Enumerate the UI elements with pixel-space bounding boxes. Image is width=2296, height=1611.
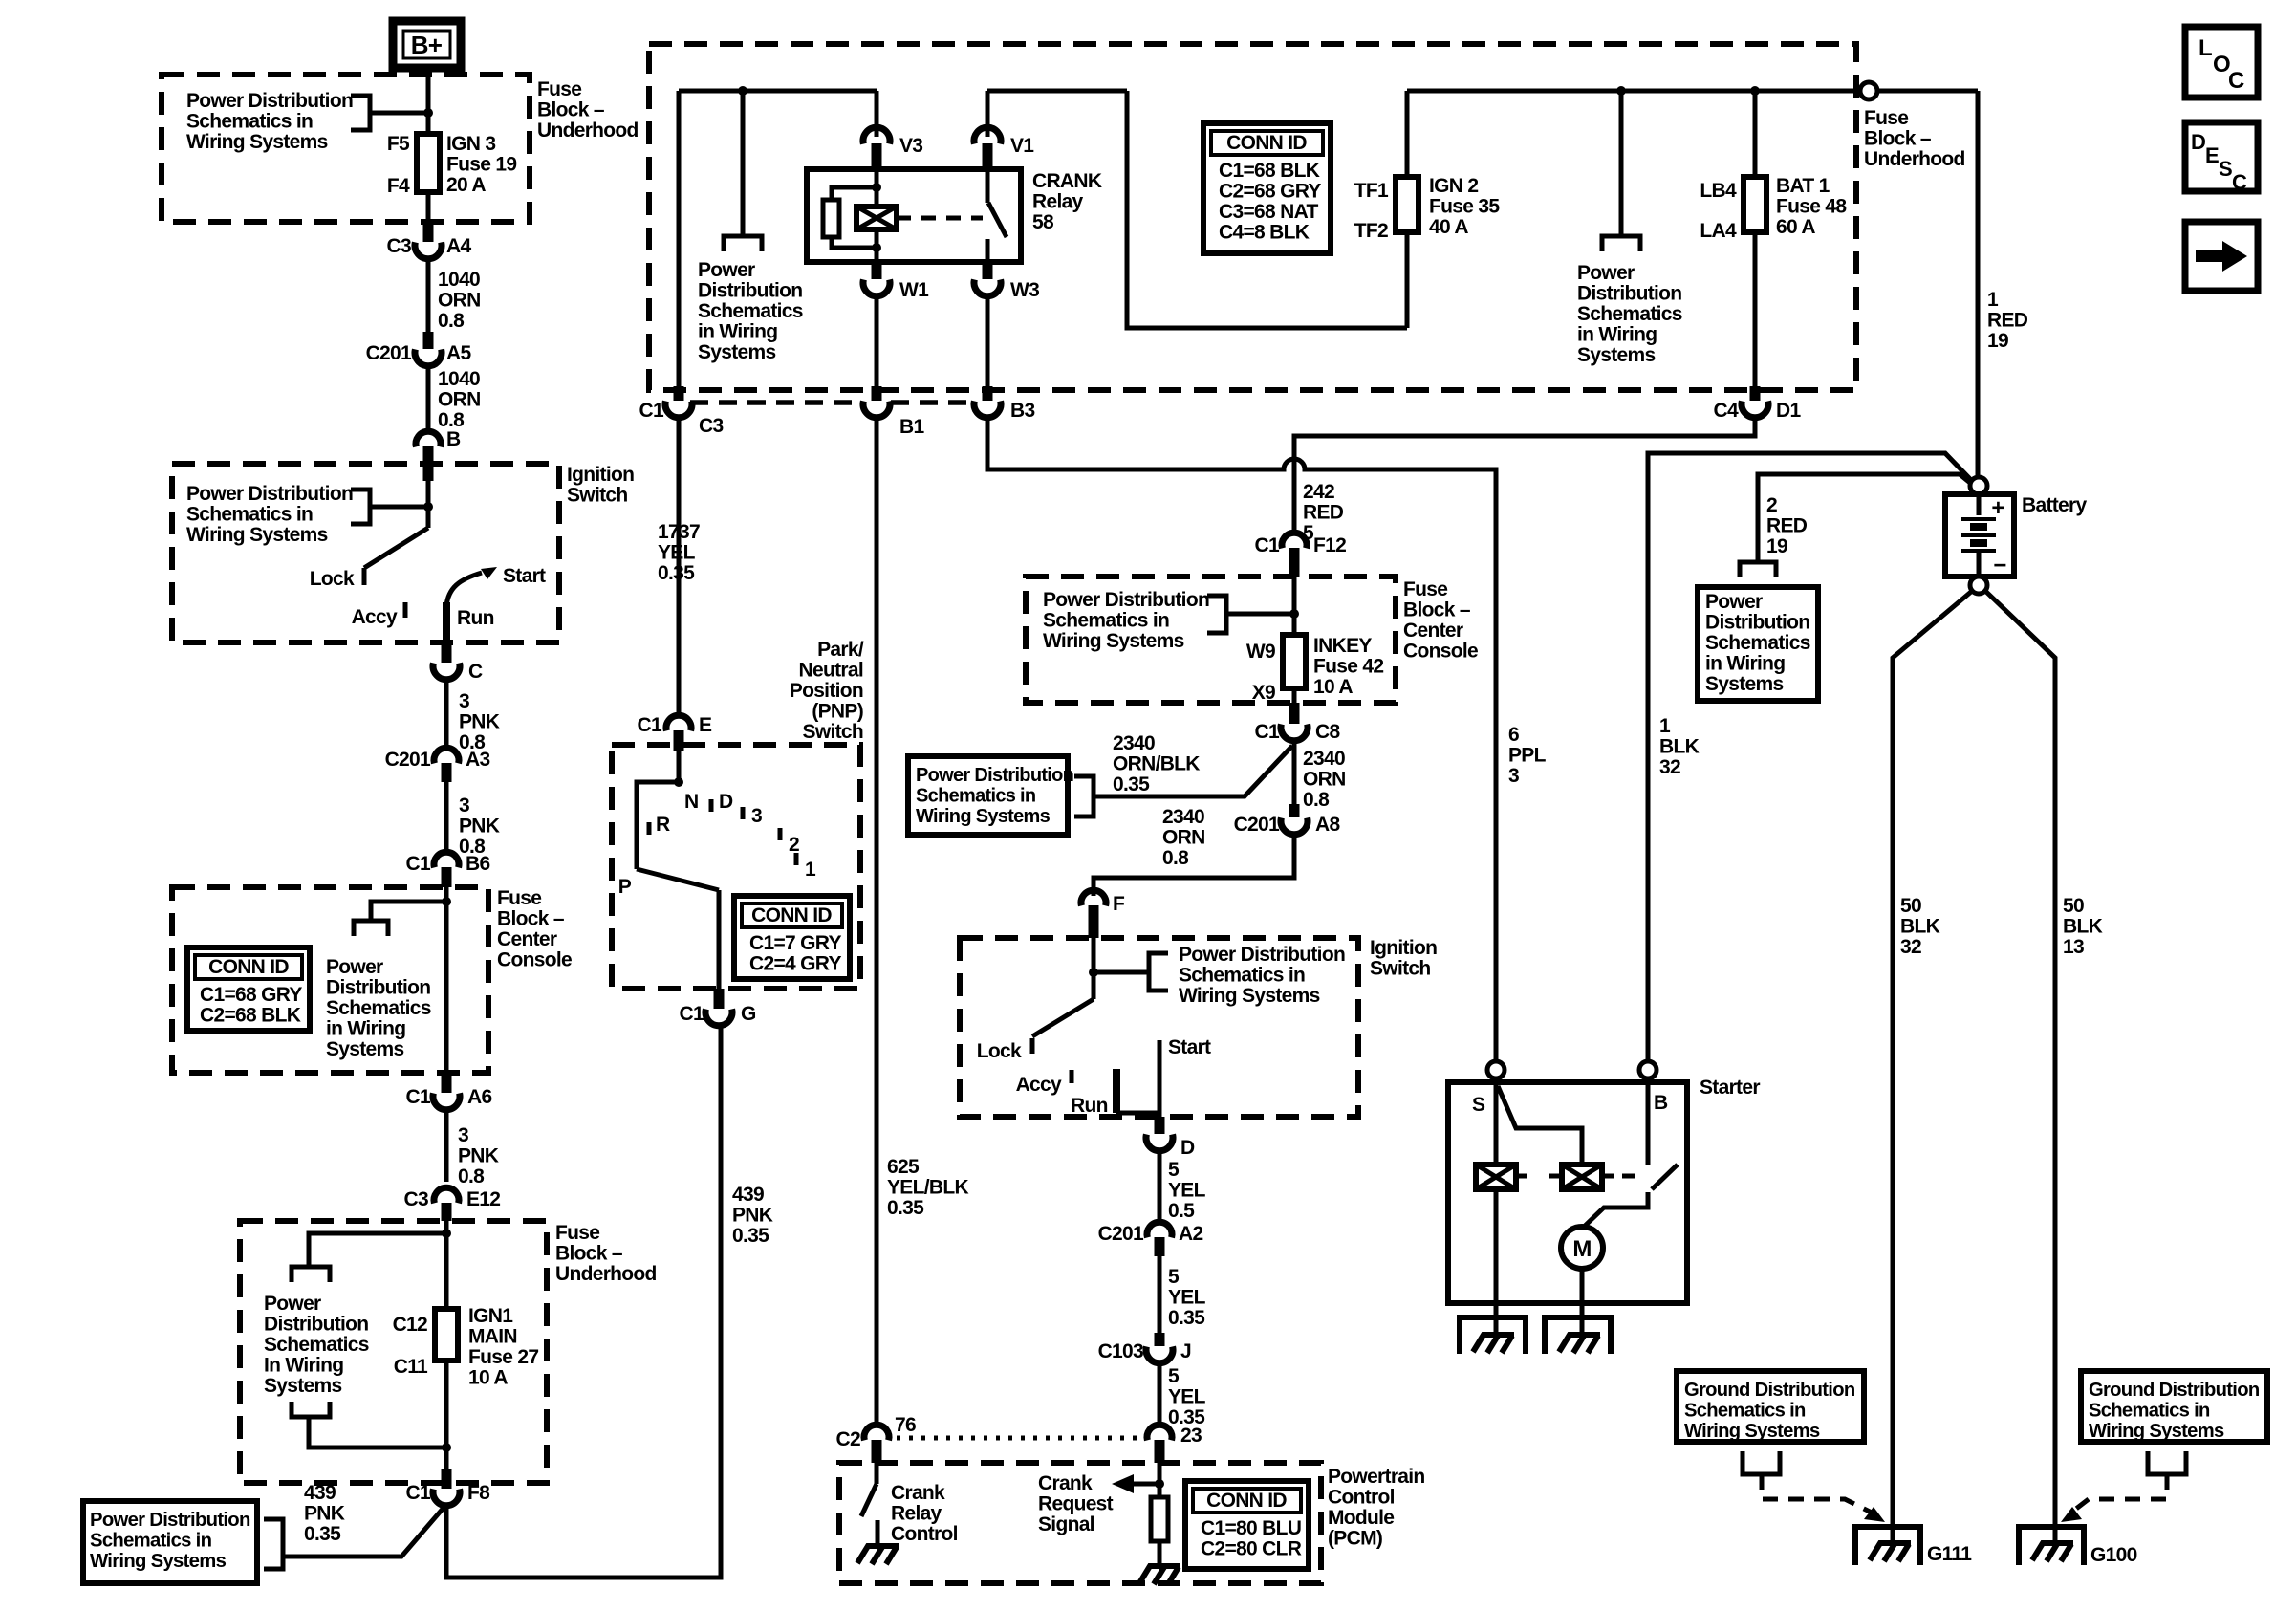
wire label 3 PNK 0.8 second [444,782,449,852]
svg-text:Systems: Systems [1705,673,1784,695]
svg-text:Systems: Systems [264,1375,342,1397]
wire D1 to F12 [1294,418,1755,533]
wire battery negative to G100 [1986,592,2055,1527]
svg-text:Block –: Block – [555,1243,623,1265]
bracket ground reference 1 [1743,1451,1780,1474]
svg-text:2340: 2340 [1113,732,1155,754]
svg-text:(PNP): (PNP) [812,701,863,723]
svg-text:YEL: YEL [1168,1287,1206,1309]
wire fuse to connector C3-A4 [426,192,431,223]
D contact [709,799,714,812]
svg-text:Distribution: Distribution [264,1314,368,1336]
svg-text:CONN ID: CONN ID [1206,1490,1287,1512]
svg-text:Wiring Systems: Wiring Systems [1043,630,1184,652]
starter B contact [1646,1082,1651,1165]
bracket reference INKEY [1207,596,1226,633]
svg-text:625: 625 [887,1156,920,1178]
ground distribution schematics box 1 [1677,1371,1864,1442]
svg-text:C1=68 BLK: C1=68 BLK [1219,160,1320,182]
svg-text:3: 3 [458,1124,468,1146]
svg-text:P: P [618,876,632,898]
svg-text:Block –: Block – [537,99,605,121]
svg-text:C2=68 BLK: C2=68 BLK [200,1005,301,1027]
svg-text:Accy: Accy [1016,1074,1062,1096]
wire battery positive to 2 RED reference [1758,474,1970,562]
svg-text:C1: C1 [406,1482,431,1504]
wire branch to reference bracket [370,505,428,510]
svg-text:LA4: LA4 [1700,220,1737,242]
ground distribution schematics box 2 [2081,1371,2267,1442]
Accy contact 2 [1070,1070,1074,1083]
wire F8 down and right to PNP output [446,1024,721,1578]
connector C1 E [677,418,682,715]
connector C1 A6 [442,1073,452,1093]
svg-text:Schematics: Schematics [326,997,431,1019]
svg-text:ORN: ORN [438,389,481,411]
node junction bus [738,86,747,96]
LOC button [2185,27,2258,98]
svg-text:PNK: PNK [732,1205,773,1227]
svg-text:Power Distribution: Power Distribution [1043,589,1209,611]
svg-text:58: 58 [1032,211,1054,233]
svg-text:−: − [1993,553,2006,578]
connector C1 C3 [674,386,684,401]
svg-text:IGN 3: IGN 3 [446,133,495,155]
wire label 3 PNK 0.8 third [444,1110,449,1182]
svg-text:Underhood: Underhood [537,120,639,142]
node junction B6 feed [442,897,451,906]
svg-text:RED: RED [1303,502,1344,524]
svg-text:Systems: Systems [326,1038,404,1060]
svg-text:20 A: 20 A [446,174,486,196]
bracket power distribution reference 2 [351,490,370,524]
svg-text:IGN 2: IGN 2 [1429,175,1478,197]
svg-text:G100: G100 [2090,1544,2137,1566]
bracket ground reference 2 [2148,1451,2186,1474]
relay switch contact [986,169,990,203]
fuse BAT1 Fuse 48 60A [1744,177,1766,232]
svg-text:B+: B+ [411,31,443,59]
wire W1 to B1 [875,296,879,390]
connector 23 PCM [1147,1425,1172,1440]
svg-text:5: 5 [1168,1365,1180,1387]
svg-text:Wiring Systems: Wiring Systems [916,806,1051,827]
starter coil side stubs [1516,1174,1527,1179]
svg-text:3: 3 [459,795,469,816]
svg-text:B1: B1 [899,416,924,438]
wire bus down to battery positive [1976,91,1981,475]
svg-text:439: 439 [304,1482,336,1504]
power distribution schematics box solid 2 [908,756,1068,835]
svg-text:50: 50 [1900,895,1921,917]
svg-text:Wiring Systems: Wiring Systems [186,131,328,153]
svg-text:B: B [1654,1092,1668,1114]
svg-text:in Wiring: in Wiring [326,1018,405,1040]
fuse block - underhood (left) dashed box [162,75,530,222]
connector B1 [872,386,882,401]
crank request arrow [1133,1482,1159,1487]
bracket reference center [724,236,762,251]
svg-text:242: 242 [1303,481,1334,503]
connector V3 [875,91,879,137]
svg-text:F12: F12 [1313,534,1346,556]
wire fuse IGN1 output [444,1361,449,1483]
relay dashed actuation link [897,216,983,221]
CONN ID table PCM [1185,1481,1309,1569]
wire into PNP switch [677,745,682,782]
bracket reference right [1602,236,1640,251]
svg-text:3: 3 [751,805,762,827]
bus wire right segment [1407,89,1978,94]
svg-text:YEL: YEL [1168,1386,1206,1408]
wire branch to power distribution reference [370,111,428,116]
wire into switch 2 [1092,938,1096,999]
dashed arrow to G111 [1762,1474,1872,1513]
svg-text:Power Distribution: Power Distribution [186,483,353,505]
svg-text:G: G [741,1003,756,1025]
svg-text:Systems: Systems [698,341,776,363]
svg-text:Position: Position [790,680,863,702]
svg-text:Ground Distribution: Ground Distribution [1684,1380,1855,1401]
svg-text:BLK: BLK [1659,736,1700,758]
connector C [442,642,452,663]
svg-text:Distribution: Distribution [698,280,802,302]
wire label 5 YEL 0.35 [1158,1256,1162,1333]
node junction bus to ignition key reference [1616,86,1626,96]
svg-text:Park/: Park/ [817,639,864,661]
svg-text:Schematics: Schematics [1577,303,1682,325]
fuse INKEY Fuse 42 10A [1283,635,1306,688]
CONN ID table left [187,947,310,1031]
node junction in ignition switch [423,502,433,512]
svg-text:Distribution: Distribution [326,977,430,999]
svg-text:Power Distribution: Power Distribution [916,765,1073,786]
wire branch to reference bracket right [1094,970,1149,975]
svg-text:Underhood: Underhood [555,1263,657,1285]
svg-text:Schematics in: Schematics in [1179,965,1305,987]
svg-text:E: E [2205,143,2219,167]
wire switch output to connector C [443,602,450,644]
svg-text:C1: C1 [639,400,664,422]
PCM pullup resistor [1158,1463,1162,1497]
svg-text:CRANK: CRANK [1032,170,1102,192]
svg-text:Console: Console [497,949,572,971]
svg-text:B3: B3 [1010,400,1034,422]
switch wiper to Lock [364,528,428,568]
svg-text:X9: X9 [1252,682,1275,704]
svg-text:W1: W1 [899,279,929,301]
connector C4 D1 [1750,386,1761,401]
connector C2 76 [864,1425,889,1440]
svg-text:Switch: Switch [803,721,863,743]
connector B3 [983,386,993,401]
svg-text:C4: C4 [1714,400,1739,422]
svg-text:10 A: 10 A [1313,676,1353,698]
node junction fuse output [442,1443,451,1452]
svg-text:V3: V3 [899,135,922,157]
node junction on IGN3 feed [423,108,433,118]
dotted PCM connector boundary [897,1436,1139,1441]
svg-text:C: C [468,661,483,683]
connector C1 F8 [442,1469,452,1489]
node junction crank request [1155,1479,1164,1489]
bus wire left segment [679,89,877,94]
ground G100 [2019,1527,2084,1565]
svg-text:0.8: 0.8 [458,1165,485,1187]
svg-text:BLK: BLK [2063,916,2103,938]
wire INKEY output [1292,688,1297,703]
svg-text:Control: Control [1328,1487,1395,1509]
svg-text:Relay: Relay [1032,191,1084,213]
svg-text:Wiring Systems: Wiring Systems [1684,1421,1820,1442]
powertrain control module dashed box [839,1463,1321,1583]
svg-text:B: B [446,428,461,450]
svg-text:R: R [656,814,670,836]
svg-text:C: C [2232,170,2247,194]
svg-text:Schematics in: Schematics in [2089,1401,2210,1422]
fuse block - underhood dashed box lower [240,1221,547,1483]
svg-text:2: 2 [1766,494,1777,516]
R contact [647,822,652,835]
bracket reference lower [292,1402,330,1417]
svg-text:C1: C1 [680,1003,704,1025]
wire V1 loop to IGN2 fuse [1127,91,1407,328]
svg-text:V1: V1 [1010,135,1034,157]
svg-text:A2: A2 [1179,1223,1202,1245]
svg-text:Start: Start [503,565,546,587]
connector C3 A4 [423,223,434,242]
svg-text:Power: Power [1705,591,1763,613]
wire W3 to B3 [986,296,990,390]
svg-text:A3: A3 [466,749,489,771]
svg-text:Fuse 48: Fuse 48 [1776,196,1847,218]
svg-text:0.8: 0.8 [1303,789,1330,811]
Start contact 2 [1158,1040,1162,1117]
bracket power distribution 8 [1149,953,1168,991]
svg-text:Block –: Block – [1403,599,1471,621]
starter pull-in coil [1476,1165,1516,1189]
bracket power distribution reference [351,96,370,130]
svg-text:Fuse 19: Fuse 19 [446,154,516,176]
svg-text:Wiring Systems: Wiring Systems [1179,985,1320,1007]
fuse block - center console dashed box [172,887,488,1073]
fuse block - underhood center dashed box [649,44,1856,390]
svg-text:0.8: 0.8 [1162,847,1189,869]
svg-text:TF2: TF2 [1354,220,1388,242]
ground starter motor [1545,1317,1611,1354]
svg-text:Schematics in: Schematics in [1043,610,1169,632]
wire BAT1 fuse to D1 [1753,232,1758,386]
starter S terminal ring [1487,1061,1505,1078]
svg-text:5: 5 [1168,1159,1180,1181]
svg-text:C11: C11 [394,1356,428,1378]
wire into switch [426,465,431,528]
svg-text:1040: 1040 [438,269,480,291]
svg-text:Relay: Relay [891,1503,942,1525]
svg-text:M: M [1572,1236,1591,1262]
svg-text:0.35: 0.35 [304,1523,341,1545]
svg-text:C3: C3 [699,415,723,437]
svg-text:C1: C1 [638,714,662,736]
bracket 2 RED reference [1740,562,1776,577]
wire reference to F8 [283,1508,444,1557]
svg-text:Start: Start [1168,1036,1211,1058]
svg-text:in Wiring: in Wiring [1705,653,1785,675]
svg-text:ORN: ORN [1162,827,1205,849]
Lock contact [362,568,367,585]
svg-text:13: 13 [2063,936,2084,958]
svg-text:2340: 2340 [1303,748,1345,770]
svg-text:Power Distribution: Power Distribution [90,1510,250,1531]
svg-text:INKEY: INKEY [1313,635,1372,657]
contact 3 [741,807,746,819]
svg-text:J: J [1180,1340,1191,1362]
svg-text:Center: Center [1403,620,1463,642]
svg-text:D: D [719,791,733,813]
svg-text:C201: C201 [385,749,431,771]
wire branch to reference upper [309,1233,446,1267]
svg-text:Wiring Systems: Wiring Systems [2089,1421,2224,1442]
svg-text:YEL/BLK: YEL/BLK [887,1177,968,1199]
svg-text:C1: C1 [1255,534,1280,556]
ground crank relay control [857,1546,899,1564]
svg-text:F4: F4 [387,175,410,197]
svg-text:F: F [1113,893,1125,915]
svg-text:BAT 1: BAT 1 [1776,175,1830,197]
svg-text:Power: Power [264,1293,321,1315]
relay coil wire [875,169,879,207]
svg-text:40 A: 40 A [1429,216,1468,238]
svg-text:19: 19 [1987,330,2008,352]
starter switch blade [1498,1086,1582,1165]
svg-text:23: 23 [1180,1425,1202,1447]
wire E12 to fuse IGN1 [444,1221,449,1309]
svg-text:2340: 2340 [1162,806,1204,828]
resistor bottom link [832,237,877,248]
svg-text:PNK: PNK [459,711,500,733]
svg-text:C1=68 GRY: C1=68 GRY [200,984,302,1006]
svg-text:PNK: PNK [304,1503,345,1525]
svg-text:Schematics in: Schematics in [186,111,313,133]
connector C201 A2 [1147,1222,1172,1237]
svg-text:Underhood: Underhood [1864,148,1965,170]
svg-text:19: 19 [1766,535,1787,557]
svg-text:C3: C3 [404,1188,428,1210]
fuse block - center console dashed box center [1026,577,1396,703]
svg-text:3: 3 [1508,765,1519,787]
svg-text:C12: C12 [393,1314,427,1336]
wire B3 to 6 PPL with hop [987,418,1496,1061]
svg-text:in Wiring: in Wiring [698,321,777,343]
svg-text:Ignition: Ignition [1370,937,1437,959]
svg-text:Fuse: Fuse [497,887,541,909]
wire battery negative to G111 [1893,592,1971,1527]
svg-text:439: 439 [732,1184,764,1206]
wire bracket to fuse feed [1226,612,1294,617]
fuse IGN1 MAIN Fuse 27 10A [435,1309,458,1361]
wire PNP output to G [717,890,722,989]
svg-text:Wiring Systems: Wiring Systems [90,1551,227,1572]
node junction E12 feed [442,1229,451,1238]
wire bus to BAT1 fuse [1753,91,1758,177]
svg-text:Lock: Lock [977,1040,1022,1062]
svg-text:D1: D1 [1776,400,1801,422]
svg-text:Starter: Starter [1700,1077,1760,1099]
svg-text:C8: C8 [1315,721,1340,743]
svg-text:Ground Distribution: Ground Distribution [2089,1380,2260,1401]
svg-text:S: S [2219,157,2232,181]
svg-text:TF1: TF1 [1354,180,1389,202]
CONN ID table PNP [734,896,850,979]
svg-text:RED: RED [1987,310,2028,332]
svg-text:(PCM): (PCM) [1328,1528,1382,1550]
svg-text:Crank: Crank [1038,1472,1093,1494]
connector C201 A3 [434,748,459,763]
connector C1 B6 [434,852,459,867]
wire contact to motor [1583,1192,1648,1228]
svg-text:A6: A6 [467,1086,491,1108]
svg-text:Schematics in: Schematics in [90,1531,212,1552]
svg-text:ORN/BLK: ORN/BLK [1113,753,1200,775]
relay coil wire lower [875,229,879,262]
starter box [1448,1082,1687,1303]
svg-text:D: D [2191,130,2205,154]
svg-text:MAIN: MAIN [468,1326,517,1348]
svg-text:ORN: ORN [1303,769,1346,791]
svg-text:0.5: 0.5 [1168,1200,1195,1222]
svg-text:1: 1 [1659,715,1671,737]
Lock contact 2 [1030,1038,1035,1054]
ground PCM resistor [1139,1566,1180,1584]
bracket reference upper [292,1267,330,1282]
svg-text:C1: C1 [1255,721,1280,743]
svg-text:C201: C201 [1234,814,1280,836]
svg-text:PNK: PNK [458,1145,499,1167]
svg-text:F5: F5 [387,133,410,155]
svg-text:PNK: PNK [459,816,500,838]
svg-text:Schematics in: Schematics in [186,504,313,526]
svg-text:Battery: Battery [2022,494,2087,516]
connector C1 C8 [1289,703,1300,724]
svg-text:in Wiring: in Wiring [1577,324,1657,346]
starter hold-in coil [1562,1165,1602,1189]
starter S wire to pull-in coil [1494,1082,1499,1165]
svg-text:Neutral: Neutral [799,660,863,682]
svg-text:76: 76 [895,1414,916,1436]
svg-text:Fuse 35: Fuse 35 [1429,196,1500,218]
svg-text:D: D [1180,1137,1195,1159]
wire label 5 YEL 0.5 [1158,1151,1162,1222]
svg-text:C1: C1 [406,853,431,875]
svg-text:Block –: Block – [497,908,565,930]
connector W1 [872,262,882,279]
switch 2 wiper to Lock [1032,999,1094,1036]
svg-text:+: + [1991,495,2004,521]
svg-text:Fuse: Fuse [1864,107,1908,129]
connector V1 [986,91,990,137]
svg-text:Schematics: Schematics [264,1334,369,1356]
svg-text:Center: Center [497,928,557,950]
connector C3 E12 [434,1187,459,1203]
contact 2 [778,828,783,840]
battery negative ring [1970,577,1987,594]
svg-text:C3: C3 [387,235,411,257]
svg-text:Fuse: Fuse [537,78,581,100]
svg-text:In Wiring: In Wiring [264,1355,343,1377]
wire to P contact [637,782,679,869]
wire B1 to PCM 625 YEL/BLK [875,418,879,1426]
dotted connector boundary line [690,400,973,405]
